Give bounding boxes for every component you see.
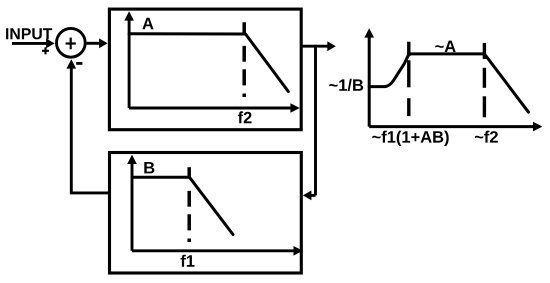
label ~f1(1+AB) [372, 131, 448, 146]
minus sign at feedback input [76, 62, 82, 65]
plus sign at input [42, 47, 49, 54]
wire: feedback up to summing junction (arrow pointing up) [67, 59, 77, 194]
block A response curve [129, 34, 288, 92]
label f2 [238, 111, 252, 123]
INPUT label [6, 28, 52, 39]
closed-loop plot y-axis [364, 28, 374, 126]
label ~1/B [329, 79, 363, 91]
label ~f2 [475, 131, 498, 143]
dashed line at f2 [242, 22, 246, 97]
wire: feedback into block B (arrow pointing left) [303, 191, 316, 201]
label A [142, 18, 153, 29]
block B response curve [132, 177, 233, 234]
block B plot y-axis [127, 155, 137, 251]
block A plot x-axis [129, 103, 300, 113]
wire: block A output to the right [301, 41, 336, 51]
block A plot y-axis [124, 11, 134, 108]
dashed line at ~f1(1+AB) [407, 42, 410, 116]
label ~A [435, 41, 455, 52]
wire: input arrow into summing junction [12, 39, 55, 49]
label f1 [181, 255, 195, 267]
wire: feedback tap going down [314, 45, 317, 196]
block B plot x-axis [132, 246, 303, 256]
block B (feedback network) [110, 153, 302, 274]
block A (forward amplifier) [109, 9, 301, 130]
wire: summing junction to block A [87, 38, 108, 48]
dashed line at ~f2 [483, 43, 486, 117]
summing junction [57, 28, 86, 57]
label B [144, 162, 154, 173]
wire: block B output to the left [70, 191, 110, 194]
dashed line at f1 [187, 167, 191, 242]
closed-loop response curve [369, 54, 528, 112]
closed-loop plot x-axis [369, 122, 542, 132]
plus sign inside summing junction [66, 38, 76, 50]
